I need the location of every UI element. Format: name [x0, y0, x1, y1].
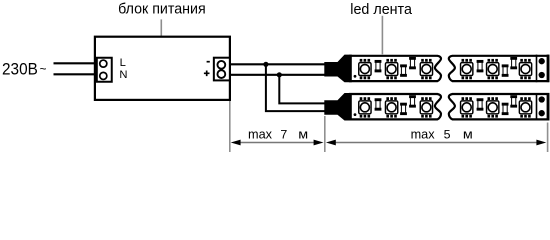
- led strip 2 segment 1 body: [350, 94, 441, 119]
- strip 1 right end border: [547, 55, 550, 83]
- svg-text:5: 5: [444, 127, 451, 141]
- dimension tick below strip connector: [324, 116, 326, 152]
- resistor at (513.7,63.1): [510, 57, 517, 69]
- svg-text:230В: 230В: [2, 60, 38, 79]
- connector plug of strip 1: [324, 55, 352, 83]
- LED at (426.4,69.05): [420, 59, 432, 79]
- polarity dot strip 2: [354, 113, 357, 116]
- dimension arrow max 5 m: [326, 140, 546, 146]
- led strip 1 segment 1 body: [350, 56, 441, 81]
- resistor at (412.5,101.4): [409, 95, 416, 107]
- LED at (525.5,107.35): [519, 97, 531, 117]
- end separator strip 1: [536, 55, 538, 83]
- output terminal screw plus: [217, 70, 225, 78]
- dimension tick right end: [547, 123, 549, 153]
- junction node on plus wire: [277, 72, 282, 77]
- svg-text:led лента: led лента: [350, 2, 412, 18]
- svg-text:L: L: [120, 57, 126, 69]
- LED at (364.9,69.05): [359, 59, 371, 79]
- led strip 2 segment 2 body: [449, 94, 549, 119]
- resistor at (378.0,104.45): [375, 98, 382, 110]
- LED at (426.4,107.35): [420, 97, 432, 117]
- power supply box: [95, 37, 230, 100]
- led strip 1 segment 2 body: [449, 56, 549, 81]
- resistor at (403.5,70.6): [400, 64, 407, 76]
- label max 7 м: [248, 127, 308, 141]
- connector plug of strip 2: [324, 93, 352, 121]
- junction node on minus wire: [263, 62, 268, 67]
- pointer line to power supply: [160, 19, 162, 48]
- LED at (466.7,69.05): [461, 59, 473, 79]
- svg-text:7: 7: [280, 127, 287, 141]
- strip 2 right end border: [547, 93, 550, 121]
- LED at (525.5,69.05): [519, 59, 531, 79]
- label max 5 м: [411, 127, 473, 141]
- resistor at (513.7,101.4): [510, 95, 517, 107]
- wire: branch minus to strip 2: [266, 64, 325, 111]
- solder pad dots strip 2: [539, 96, 545, 102]
- input terminal screw L: [100, 60, 107, 67]
- pointer line to led strip: [381, 16, 383, 55]
- label minus: [207, 61, 210, 63]
- svg-text:max: max: [411, 127, 436, 141]
- svg-text:~: ~: [40, 62, 47, 76]
- resistor at (403.5,108.89999999999999): [400, 103, 407, 115]
- resistor at (505.1,70.6): [502, 64, 509, 76]
- LED at (391.6,69.05): [385, 59, 397, 79]
- polarity dot strip 1: [354, 75, 357, 78]
- end separator strip 2: [536, 93, 538, 121]
- svg-text:м: м: [298, 127, 308, 141]
- resistor at (480.0,104.45): [477, 98, 484, 110]
- dimension arrow max 7 m: [231, 140, 324, 146]
- svg-text:блок питания: блок питания: [118, 1, 206, 17]
- wire: plus output to strip 1: [230, 74, 325, 76]
- LED at (466.7,107.35): [461, 97, 473, 117]
- wire: mains N to power supply: [54, 73, 101, 75]
- label plus: [204, 71, 210, 77]
- resistor at (505.1,108.89999999999999): [502, 103, 509, 115]
- LED at (492.7,69.05): [487, 59, 499, 79]
- dimension tick below power supply: [229, 101, 231, 152]
- input terminal screw N: [100, 72, 107, 79]
- wire: branch plus to strip 2: [279, 75, 324, 104]
- svg-text:max: max: [248, 127, 273, 141]
- resistor at (412.5,63.1): [409, 57, 416, 69]
- output terminal block: [214, 58, 230, 81]
- svg-text:N: N: [119, 69, 127, 81]
- resistor at (480.0,66.15): [477, 60, 484, 72]
- wire: minus output to strip 1: [230, 63, 325, 65]
- resistor at (378.0,66.15): [375, 60, 382, 72]
- wire: mains L to power supply: [54, 62, 101, 64]
- LED at (492.7,107.35): [487, 97, 499, 117]
- LED at (391.6,107.35): [385, 97, 397, 117]
- LED at (364.9,107.35): [359, 97, 371, 117]
- svg-text:м: м: [463, 127, 473, 141]
- input terminal block: [97, 58, 112, 82]
- output terminal screw minus: [217, 61, 225, 69]
- solder pad dots strip 1: [539, 58, 545, 64]
